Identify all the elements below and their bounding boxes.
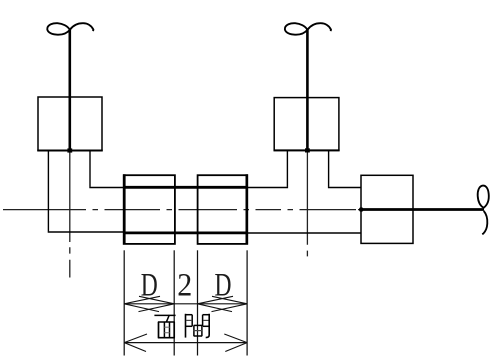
- valve V2 stem: [306, 29, 309, 150]
- valve V1 stem: [69, 30, 72, 151]
- valve V1 stem centerline tail: [69, 151, 71, 278]
- centerline main pipe: [3, 209, 361, 211]
- valve V2 right leg: [328, 150, 330, 187]
- arrowhead at E1: [124, 296, 160, 311]
- valve V1 handwheel loop: [47, 23, 70, 35]
- label D left: [141, 267, 158, 303]
- dimension line 面間: [124, 342, 247, 344]
- flange F2: [198, 175, 248, 244]
- arrowhead left 面間: [124, 334, 147, 352]
- valve V3 handle loop: [478, 186, 489, 208]
- pipe left face (thick): [123, 174, 126, 244]
- valve V2 body: [274, 98, 339, 151]
- valve V2 stem centerline tail: [306, 151, 308, 257]
- extension line E2: [173, 250, 175, 355]
- valve V3 stem: [361, 208, 484, 211]
- valve V2 handwheel loop: [285, 23, 308, 35]
- wire: right pipe bottom line: [248, 232, 362, 234]
- valve V2 body bottom edge: [274, 149, 340, 151]
- pipe right face (thick): [246, 174, 249, 244]
- flange F1: [124, 175, 175, 244]
- label D right: [215, 267, 232, 303]
- valve V2 left leg: [286, 150, 288, 187]
- arrowhead at E3: [198, 296, 234, 311]
- valve V2 stem blob: [305, 148, 310, 152]
- svg-text:D: D: [141, 267, 158, 303]
- wire: bottom line from elbow to pipe left face: [48, 231, 125, 233]
- pipe body top edge (thick): [123, 186, 248, 189]
- valve V1 body: [38, 97, 102, 151]
- label 面 (drawn): [154, 315, 175, 338]
- wire: V1 right leg (vertical pipe right wall): [89, 151, 91, 187]
- arrowhead right 面間: [224, 334, 247, 352]
- wire: elbow top line to pipe left face: [89, 187, 124, 189]
- wire: V1 left leg (vertical pipe left wall): [47, 151, 49, 232]
- label 間 (drawn): [185, 314, 209, 338]
- valve V3 stem blob: [359, 207, 364, 212]
- label 2: [177, 267, 192, 303]
- extension line E1: [123, 250, 125, 355]
- valve V3 handle tail: [482, 211, 487, 234]
- pipe body bottom edge (thick): [123, 231, 248, 234]
- valve V1 stem blob: [67, 148, 72, 152]
- arrowhead at E2: [139, 296, 175, 311]
- svg-text:2: 2: [177, 267, 192, 303]
- wire: V2 right leg turn to right valve: [328, 187, 362, 189]
- valve V1 body bottom edge: [37, 150, 102, 152]
- extension line E3: [197, 250, 199, 355]
- dimension line D-2-D: [124, 303, 247, 305]
- valve V1 handwheel arc: [70, 23, 94, 31]
- valve V2 handwheel arc: [307, 23, 331, 31]
- wire: V2 left leg turn to right pipe face: [248, 187, 289, 189]
- extension line E4: [246, 250, 248, 355]
- valve V3 body: [361, 175, 413, 243]
- arrowhead at E4: [212, 296, 248, 311]
- svg-text:D: D: [215, 267, 232, 303]
